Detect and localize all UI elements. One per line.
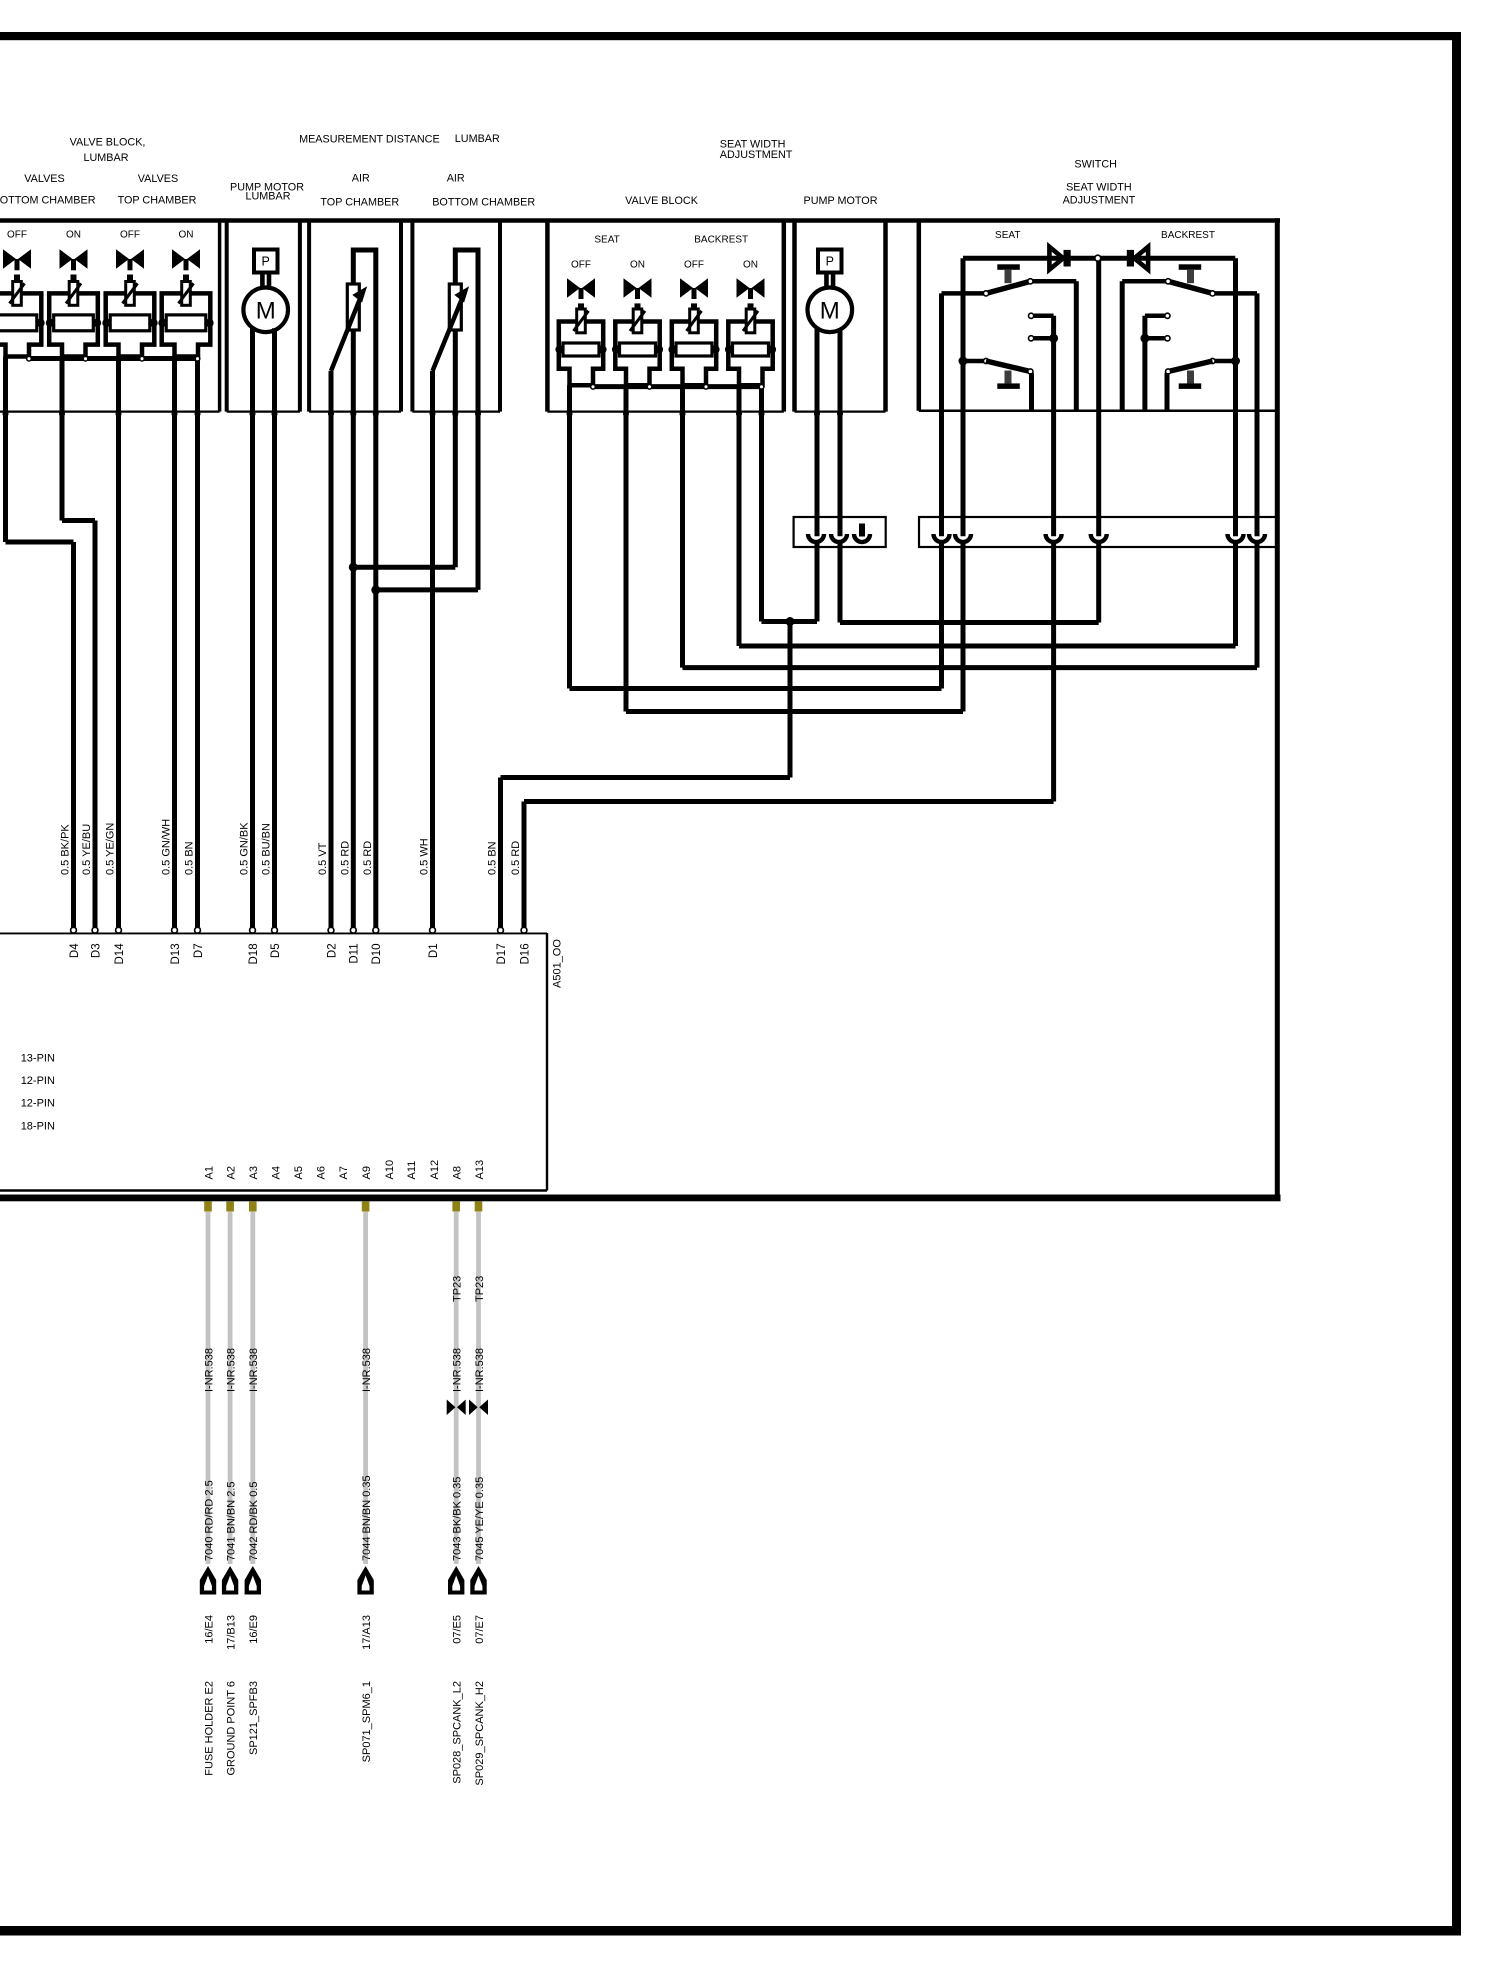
svg-text:M: M bbox=[256, 298, 276, 325]
svg-text:D17: D17 bbox=[496, 943, 508, 964]
svg-text:I-NR.538: I-NR.538 bbox=[361, 1348, 373, 1392]
svg-text:TOP CHAMBER: TOP CHAMBER bbox=[320, 197, 399, 209]
svg-text:SWITCH: SWITCH bbox=[1074, 158, 1117, 170]
svg-text:D4: D4 bbox=[69, 943, 81, 958]
svg-text:SP029_SPCANK_H2: SP029_SPCANK_H2 bbox=[474, 1681, 486, 1786]
svg-text:D1: D1 bbox=[428, 943, 440, 958]
svg-text:P: P bbox=[262, 255, 270, 269]
svg-text:0.5 BK/PK: 0.5 BK/PK bbox=[60, 824, 72, 875]
svg-text:PUMP MOTOR: PUMP MOTOR bbox=[804, 195, 878, 207]
svg-text:A8: A8 bbox=[452, 1166, 464, 1179]
svg-text:D13: D13 bbox=[170, 943, 182, 964]
svg-text:A6: A6 bbox=[316, 1166, 328, 1179]
svg-text:MEASUREMENT DISTANCE: MEASUREMENT DISTANCE bbox=[299, 134, 440, 146]
svg-text:D14: D14 bbox=[114, 943, 126, 965]
svg-text:I-NR.538: I-NR.538 bbox=[203, 1348, 215, 1392]
svg-text:ON: ON bbox=[743, 259, 758, 270]
svg-text:A10: A10 bbox=[384, 1160, 396, 1180]
svg-text:ON: ON bbox=[66, 229, 81, 240]
svg-text:7043 BK/BK 0.35: 7043 BK/BK 0.35 bbox=[452, 1477, 464, 1561]
svg-text:7044 BN/BN 0.35: 7044 BN/BN 0.35 bbox=[361, 1475, 373, 1561]
svg-text:16/E4: 16/E4 bbox=[203, 1615, 215, 1644]
svg-text:D2: D2 bbox=[326, 943, 338, 958]
svg-text:D5: D5 bbox=[270, 943, 282, 958]
svg-text:07/E5: 07/E5 bbox=[452, 1615, 464, 1644]
svg-text:0.5 GN/WH: 0.5 GN/WH bbox=[161, 819, 173, 875]
svg-text:VALVES: VALVES bbox=[138, 173, 178, 185]
svg-text:07/E7: 07/E7 bbox=[474, 1615, 486, 1644]
svg-text:0.5 RD: 0.5 RD bbox=[510, 841, 522, 875]
svg-text:A13: A13 bbox=[474, 1160, 486, 1180]
svg-text:0.5 BN: 0.5 BN bbox=[487, 841, 499, 875]
svg-text:OFF: OFF bbox=[120, 229, 140, 240]
svg-text:0.5 RD: 0.5 RD bbox=[362, 841, 374, 875]
svg-text:VALVES: VALVES bbox=[24, 173, 64, 185]
svg-text:SEAT WIDTH: SEAT WIDTH bbox=[1066, 182, 1132, 194]
svg-text:TP23: TP23 bbox=[474, 1276, 486, 1302]
svg-text:0.5 VT: 0.5 VT bbox=[317, 842, 329, 875]
svg-text:D10: D10 bbox=[371, 943, 383, 964]
svg-text:0.5 RD: 0.5 RD bbox=[339, 841, 351, 875]
svg-text:TOP CHAMBER: TOP CHAMBER bbox=[118, 194, 197, 206]
svg-text:12-PIN: 12-PIN bbox=[21, 1098, 55, 1110]
svg-text:A501_OO: A501_OO bbox=[552, 939, 564, 988]
svg-text:M: M bbox=[820, 298, 840, 325]
svg-text:AIR: AIR bbox=[447, 172, 465, 184]
svg-text:17/A13: 17/A13 bbox=[361, 1615, 373, 1650]
svg-text:0.5 GN/BK: 0.5 GN/BK bbox=[239, 822, 251, 875]
svg-text:FUSE HOLDER E2: FUSE HOLDER E2 bbox=[203, 1681, 215, 1776]
svg-text:SP121_SPFB3: SP121_SPFB3 bbox=[248, 1681, 260, 1755]
svg-text:12-PIN: 12-PIN bbox=[21, 1075, 55, 1087]
svg-text:A3: A3 bbox=[248, 1166, 260, 1179]
svg-text:LUMBAR: LUMBAR bbox=[246, 190, 291, 202]
svg-text:SP028_SPCANK_L2: SP028_SPCANK_L2 bbox=[452, 1681, 464, 1784]
svg-text:13-PIN: 13-PIN bbox=[21, 1053, 55, 1065]
svg-text:0.5 WH: 0.5 WH bbox=[419, 838, 431, 875]
svg-text:LUMBAR: LUMBAR bbox=[84, 152, 129, 164]
svg-text:VALVE BLOCK,: VALVE BLOCK, bbox=[70, 137, 146, 149]
svg-text:ON: ON bbox=[630, 259, 645, 270]
svg-text:7045 YE/YE 0.35: 7045 YE/YE 0.35 bbox=[474, 1477, 486, 1561]
svg-text:A4: A4 bbox=[270, 1166, 282, 1179]
svg-text:SP071_SPM6_1: SP071_SPM6_1 bbox=[361, 1681, 373, 1762]
svg-text:A2: A2 bbox=[225, 1166, 237, 1179]
svg-text:ADJUSTMENT: ADJUSTMENT bbox=[1063, 195, 1136, 207]
svg-text:AIR: AIR bbox=[352, 172, 370, 184]
svg-text:0.5 YE/GN: 0.5 YE/GN bbox=[105, 823, 117, 875]
svg-text:GROUND POINT 6: GROUND POINT 6 bbox=[225, 1681, 237, 1776]
svg-text:0.5 BU/BN: 0.5 BU/BN bbox=[261, 823, 273, 875]
svg-text:BOTTOM CHAMBER: BOTTOM CHAMBER bbox=[432, 197, 535, 209]
svg-text:SEAT: SEAT bbox=[995, 230, 1020, 241]
svg-text:7041 BN/BN 2.5: 7041 BN/BN 2.5 bbox=[225, 1482, 237, 1562]
svg-text:7042 RD/BK 0.5: 7042 RD/BK 0.5 bbox=[248, 1482, 260, 1562]
svg-text:LUMBAR: LUMBAR bbox=[455, 133, 500, 145]
svg-text:ADJUSTMENT: ADJUSTMENT bbox=[720, 149, 793, 161]
svg-text:ON: ON bbox=[179, 229, 194, 240]
svg-text:A12: A12 bbox=[429, 1160, 441, 1180]
svg-text:0.5 YE/BU: 0.5 YE/BU bbox=[81, 824, 93, 875]
svg-text:OFF: OFF bbox=[684, 259, 704, 270]
svg-text:OFF: OFF bbox=[7, 229, 27, 240]
svg-text:18-PIN: 18-PIN bbox=[21, 1120, 55, 1132]
svg-text:TP23: TP23 bbox=[452, 1276, 464, 1302]
svg-text:BACKREST: BACKREST bbox=[1161, 230, 1215, 241]
svg-text:I-NR.538: I-NR.538 bbox=[452, 1348, 464, 1392]
svg-text:I-NR.538: I-NR.538 bbox=[248, 1348, 260, 1392]
svg-text:A11: A11 bbox=[406, 1161, 418, 1180]
svg-text:A5: A5 bbox=[293, 1166, 305, 1179]
svg-text:A7: A7 bbox=[338, 1166, 350, 1179]
svg-text:BACKREST: BACKREST bbox=[694, 235, 748, 246]
svg-text:OFF: OFF bbox=[571, 259, 591, 270]
svg-text:I-NR.538: I-NR.538 bbox=[474, 1348, 486, 1392]
svg-text:A1: A1 bbox=[203, 1166, 215, 1179]
svg-text:P: P bbox=[826, 255, 834, 269]
svg-text:16/E9: 16/E9 bbox=[248, 1615, 260, 1644]
svg-text:0.5 BN: 0.5 BN bbox=[184, 841, 196, 875]
svg-text:SEAT: SEAT bbox=[594, 235, 619, 246]
svg-text:17/B13: 17/B13 bbox=[225, 1615, 237, 1650]
svg-text:A9: A9 bbox=[361, 1166, 373, 1179]
svg-text:D7: D7 bbox=[193, 943, 205, 958]
svg-text:D3: D3 bbox=[90, 943, 102, 958]
svg-text:D16: D16 bbox=[519, 943, 531, 964]
svg-text:7040 RD/RD 2.5: 7040 RD/RD 2.5 bbox=[203, 1480, 215, 1561]
svg-text:BOTTOM CHAMBER: BOTTOM CHAMBER bbox=[0, 194, 96, 206]
svg-text:D11: D11 bbox=[349, 943, 361, 963]
svg-text:D18: D18 bbox=[248, 943, 260, 964]
svg-text:VALVE BLOCK: VALVE BLOCK bbox=[625, 195, 699, 207]
svg-text:I-NR.538: I-NR.538 bbox=[225, 1348, 237, 1392]
